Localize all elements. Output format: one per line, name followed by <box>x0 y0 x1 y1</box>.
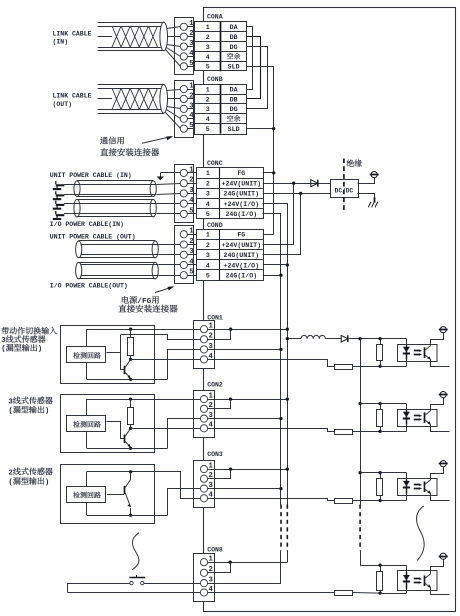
LINK CABLE IN cable core wire stub <box>98 36 112 38</box>
wire COND 24G(I/O) to bus <box>263 275 281 277</box>
svg-text:CON3: CON3 <box>207 451 223 458</box>
LINK CABLE IN cable braid shield <box>112 26 158 47</box>
connector block CON8 <box>194 554 215 602</box>
svg-text:5: 5 <box>206 211 210 218</box>
junction dot S2 resistor top <box>129 397 132 400</box>
CON3 pin 4 contact <box>200 495 207 502</box>
svg-text:2: 2 <box>189 92 193 100</box>
svg-text:4: 4 <box>206 116 210 123</box>
wire COND pin 5 to table <box>187 275 196 277</box>
svg-text:LINK CABLE: LINK CABLE <box>53 30 92 37</box>
wire CON1 pin1 to +24V(I/O) bus <box>208 329 288 331</box>
wire CON2 pin4 signal to opto <box>208 429 335 432</box>
sensor box S1 <box>61 326 155 384</box>
wire I/O power OUT conductors <box>81 264 159 266</box>
junction dot S3 collector top <box>129 470 132 473</box>
svg-text:5: 5 <box>189 207 193 215</box>
wire S2 0V to pin 3 <box>168 419 201 449</box>
LED inside optocoupler PC8 <box>403 575 410 580</box>
svg-text:4: 4 <box>206 201 210 208</box>
wire CON3 pin1 to +24V(I/O) bus <box>208 469 288 471</box>
LINK CABLE IN shielded cable jacket <box>98 22 164 24</box>
svg-text:(: ( <box>8 408 12 416</box>
wire S1 left supply rail <box>86 329 88 346</box>
CONC pin 4 contact <box>180 200 187 207</box>
earth symbol PC8 output <box>440 553 446 559</box>
wire S3 0V to pin 3 <box>168 489 201 516</box>
svg-text:UNIT POWER CABLE (OUT): UNIT POWER CABLE (OUT) <box>50 233 136 240</box>
wire S2 0V bottom rail <box>87 448 168 450</box>
connector block CON2 <box>194 391 215 438</box>
svg-text:1: 1 <box>206 170 210 177</box>
wire CONB pin 2 to table <box>187 98 194 100</box>
junction dot CON3 pin1-pin2 bridge <box>229 467 232 470</box>
wire S3 bottom rail <box>87 515 168 517</box>
wire CON8 bridge pin1 to pin2 <box>208 563 231 573</box>
wire 24G(UNIT) net CONC to COND and DC/DC <box>263 193 330 195</box>
CONA pin 4 contact <box>180 53 187 60</box>
svg-text:24G(I/O): 24G(I/O) <box>225 273 257 280</box>
wire PC3 collector to earth <box>431 467 444 480</box>
DC/DC converter U1 <box>331 180 359 198</box>
optocoupler PC8 body <box>398 571 438 591</box>
inductor L1 noise filter <box>287 338 301 340</box>
wire CON1 bridge pin1 to pin2 <box>208 330 231 340</box>
UNIT power cable OUT <box>79 240 156 242</box>
svg-text:I/O POWER CABLE(OUT): I/O POWER CABLE(OUT) <box>50 283 128 290</box>
crimp terminal 24G(I/O) <box>56 214 65 216</box>
wire PC1 emitter output <box>431 360 450 367</box>
connector block CONC <box>175 165 194 223</box>
connector block CONB <box>175 81 194 138</box>
wire CONB pin 1 to table <box>187 89 194 91</box>
wire PC8 LED cathode return <box>406 589 408 593</box>
resistor CON1 series (horizontal) <box>335 365 353 370</box>
CONA pin 5 contact <box>180 63 187 70</box>
svg-text:3: 3 <box>1 337 6 345</box>
svg-text:2: 2 <box>8 469 13 477</box>
wire PC2 feed to LED anode <box>380 403 406 405</box>
wire PC2 LED cathode return <box>406 425 408 432</box>
svg-text:2: 2 <box>206 34 210 41</box>
insulation boundary dashed line <box>343 159 345 213</box>
detection circuit box S1 <box>67 347 106 363</box>
svg-text:5: 5 <box>206 273 210 280</box>
CON8 pin 3 contact <box>200 580 207 587</box>
table CONB <box>195 85 247 135</box>
wires link cable IN conductors to CONA pins <box>167 27 181 29</box>
CON8 pin 1 contact <box>200 559 207 566</box>
sensor box S2 <box>61 395 155 453</box>
wire PC3 LED cathode return <box>406 494 408 501</box>
svg-text:4: 4 <box>189 258 194 266</box>
junction dot S1 collector node <box>129 358 132 361</box>
resistor PC2 input divider (vertical) <box>377 410 383 427</box>
junction dot S2 collector node <box>129 427 132 430</box>
wire PC8 emitter output <box>431 588 450 595</box>
svg-text:UNIT POWER CABLE (IN): UNIT POWER CABLE (IN) <box>50 172 132 179</box>
junction dot CON1 pin1-pin2 bridge <box>229 328 232 331</box>
phototransistor inside optocoupler PC1 <box>424 347 426 358</box>
wire CONC FG to functional earth <box>160 172 180 174</box>
wire COND pin 3 to table <box>187 254 196 256</box>
wire CONA pin 5 to table <box>187 66 194 68</box>
wire DC/DC output to earth <box>358 178 375 184</box>
diode D1 reverse protection <box>341 335 348 342</box>
COND pin 2 contact <box>180 241 187 248</box>
wire PC2 emitter output <box>431 425 450 432</box>
resistor S2 pull-up <box>130 399 132 408</box>
svg-text:+24V(UNIT): +24V(UNIT) <box>222 242 262 249</box>
CON1 pin 1 contact <box>200 326 207 333</box>
wire CON1 pin3 to 24G(I/O) bus <box>208 349 281 351</box>
LINK CABLE IN cable end ellipse <box>160 22 168 51</box>
wire I/O power IN conductors <box>64 203 156 205</box>
junction dot +24V(UNIT) <box>292 182 295 185</box>
junction dot CON2 pin1 bus <box>286 397 289 400</box>
arrow to CONB block <box>142 137 171 144</box>
junction dot PC1 resistor bottom <box>378 365 381 368</box>
LINK CABLE OUT cable core wire stub <box>98 98 112 100</box>
wire CONC pin 2 to table <box>187 183 196 185</box>
CONC pin 2 contact <box>180 180 187 187</box>
svg-text:+24V(I/O): +24V(I/O) <box>223 201 259 208</box>
junction dot PC1 resistor top <box>378 337 381 340</box>
svg-text:2: 2 <box>206 242 210 249</box>
junction dot CON3 pin1 bus <box>286 467 289 470</box>
wire CONA pin 1 to table <box>187 26 194 28</box>
wire CONC pin 5 to table <box>187 213 196 215</box>
table CONA <box>195 22 247 71</box>
svg-text:COND: COND <box>207 222 223 229</box>
optocoupler PC3 body <box>398 479 438 496</box>
junction dot CON2 pin1-pin2 bridge <box>229 397 232 400</box>
svg-text:(: ( <box>8 479 12 487</box>
label power/FG direct-mount connector <box>122 296 129 303</box>
connector block CON1 <box>194 321 215 369</box>
opto feed rail (vertical) <box>360 339 362 505</box>
svg-text:+24V(I/O): +24V(I/O) <box>223 262 259 269</box>
svg-text:1: 1 <box>189 166 194 174</box>
COND pin 5 contact <box>180 272 187 279</box>
wire CON2 bridge pin1 to pin2 <box>208 400 231 409</box>
junction dot +24V(I/O) COND <box>286 263 289 266</box>
wire CON3 pin3 to 24G(I/O) bus <box>208 488 281 490</box>
crimp terminal +24V(UNIT) <box>56 184 65 186</box>
junction dot PC8 resistor top <box>378 564 381 567</box>
resistor S1 pull-up <box>130 329 132 338</box>
wire PC2 collector to earth <box>431 398 444 411</box>
wire CONB pin 5 to table <box>187 128 194 130</box>
wire SLD / FG common net <box>247 67 274 235</box>
wire UNIT power IN conductors <box>64 184 156 186</box>
wire S2 left supply rail <box>86 399 88 415</box>
enclosure border of I/O unit <box>204 8 456 612</box>
svg-text:2: 2 <box>206 96 210 103</box>
earth symbol DC/DC <box>371 172 377 178</box>
CONA pin 3 contact <box>180 43 187 50</box>
wire S3 left supply rail <box>86 472 88 486</box>
svg-text:): ) <box>45 479 49 487</box>
wire CONC pin 4 to table <box>187 203 196 205</box>
wire CON8 pin4 to opto8 <box>208 592 335 594</box>
wire CONB pin 3 to table <box>187 108 194 110</box>
wire +24V(UNIT) net CONC to COND and DC/DC <box>263 183 330 185</box>
svg-text:I/O POWER CABLE(IN): I/O POWER CABLE(IN) <box>50 221 124 228</box>
svg-text:CONA: CONA <box>207 13 223 20</box>
wire S3 top rail to pin 4 jog <box>87 472 201 499</box>
svg-text:3: 3 <box>189 248 194 256</box>
wire PC8 feed to LED anode <box>380 565 406 567</box>
wire 24G(I/O) bus <box>263 214 281 584</box>
optocoupler PC2 body <box>398 410 438 427</box>
junction dot PC2 resistor top <box>378 402 381 405</box>
phototransistor inside optocoupler PC3 <box>424 481 426 492</box>
svg-text:): ) <box>38 346 42 354</box>
svg-text:4: 4 <box>206 262 210 269</box>
svg-text:(: ( <box>1 346 5 354</box>
junction dot opto2 feed <box>358 402 361 405</box>
transistor S1 NPN output <box>124 366 126 375</box>
CONA row 4 signal label 空余 <box>227 53 233 59</box>
wire PC3 emitter output <box>431 494 450 501</box>
optocoupler PC1 body <box>398 345 438 362</box>
CON3 pin 1 contact <box>200 466 207 473</box>
svg-text:DB: DB <box>230 34 238 41</box>
svg-text:24G(UNIT): 24G(UNIT) <box>223 252 259 259</box>
wire COND pin 2 to table <box>187 244 196 246</box>
wire CON3 bridge pin1 to pin2 <box>208 470 231 479</box>
wire CONC pin 1 to table <box>187 172 196 174</box>
svg-text:SLD: SLD <box>228 64 240 71</box>
wire S2 base from detection circuit <box>107 422 125 439</box>
dashed continuation of I/O buses <box>280 505 282 551</box>
diode on +24V(UNIT) feed <box>311 180 318 187</box>
wire CON2 pin3 to 24G(I/O) bus <box>208 418 281 420</box>
junction dot S2 emitter <box>129 447 132 450</box>
svg-text:3: 3 <box>8 398 13 406</box>
wire COND pin 4 to table <box>187 264 196 266</box>
resistor CON3 series (horizontal) <box>335 499 353 504</box>
detection circuit box S3 <box>67 487 106 503</box>
wire CON1 pin4 signal to opto <box>208 360 335 367</box>
svg-text:5: 5 <box>206 64 210 71</box>
svg-text:CON8: CON8 <box>207 546 223 553</box>
wire CONC FG to shield net <box>263 172 274 174</box>
CON2 pin 1 contact <box>200 396 207 403</box>
svg-text:CONB: CONB <box>207 76 223 83</box>
CONC pin 1 contact <box>180 169 187 176</box>
wires link cable OUT conductors to CONB pins <box>167 90 181 91</box>
svg-text:5: 5 <box>206 126 210 133</box>
crimp terminal +24V(I/O) <box>56 204 65 206</box>
wire CON8 pin3 to 24G bus end <box>208 583 281 585</box>
junction dot PC3 resistor top <box>378 471 381 474</box>
svg-text:FG: FG <box>237 232 245 239</box>
CONB pin 3 contact <box>180 105 187 112</box>
junction dot CON2 pin3 bus <box>279 417 282 420</box>
LINK CABLE OUT shielded cable jacket <box>98 84 164 86</box>
transistor S2 NPN output <box>124 435 126 444</box>
label insulation <box>347 160 354 167</box>
wire S1 switching input to pin 2 <box>121 335 201 340</box>
phototransistor inside optocoupler PC2 <box>424 412 426 423</box>
svg-text:3: 3 <box>189 102 194 110</box>
svg-text:+24V(UNIT): +24V(UNIT) <box>222 181 262 188</box>
junction dot CON8 bridge <box>229 561 232 564</box>
svg-text:2: 2 <box>206 181 210 188</box>
CON1 pin 4 contact <box>200 356 207 363</box>
wire CONA pin 3 to table <box>187 46 194 48</box>
wire S1 0V bottom rail <box>87 379 168 381</box>
connector block CON3 <box>194 461 215 508</box>
svg-text:CON1: CON1 <box>207 315 223 322</box>
CON3 pin 2 contact <box>200 475 207 482</box>
crimp terminal 24G(UNIT) <box>56 194 65 196</box>
wire CONC pin 3 to table <box>187 193 196 195</box>
junction dot opto feed rail top <box>358 337 361 340</box>
svg-text:24G(UNIT): 24G(UNIT) <box>223 191 259 198</box>
wire S1 0V to pin 3 <box>168 350 201 380</box>
junction dot PC2 resistor bottom <box>378 430 381 433</box>
junction dot S1 emitter <box>129 378 132 381</box>
CON2 pin 3 contact <box>200 415 207 422</box>
wire return loop to CON8 pin4 <box>68 592 201 594</box>
bus break white gaps (dashed continuation) <box>279 505 291 551</box>
svg-text:1: 1 <box>206 86 210 93</box>
break squiggle more channels (left) <box>132 533 139 570</box>
svg-text:4: 4 <box>206 54 210 61</box>
wire PC1 LED cathode return <box>406 360 408 367</box>
connector block CONA <box>175 18 194 75</box>
CON1 pin 2 contact <box>200 336 207 343</box>
junction dot S1 resistor top <box>129 328 132 331</box>
junction dot FG/SLD <box>272 171 275 174</box>
svg-text:CON2: CON2 <box>207 382 223 389</box>
wire COND pin 1 to table <box>187 234 196 236</box>
light coupling arrows PC3 <box>414 484 420 486</box>
light coupling arrows PC2 <box>414 415 420 417</box>
junction dot PC8 resistor bottom <box>378 591 381 594</box>
wire COND FG to shield net <box>263 234 274 236</box>
svg-text:1: 1 <box>206 232 210 239</box>
LED inside optocoupler PC2 <box>403 412 410 417</box>
wire switch loop left side <box>67 583 69 592</box>
detection circuit box S2 <box>67 416 106 432</box>
junction dot 24G(I/O) COND <box>279 274 282 277</box>
wire CON2 pin1 to +24V(I/O) bus <box>208 399 288 401</box>
CON2 pin 2 contact <box>200 405 207 412</box>
CONB pin 5 contact <box>180 125 187 132</box>
wire DC/DC output to chassis ground <box>358 194 375 198</box>
wire external switch loop to CON8 pin3 <box>68 583 130 585</box>
svg-text:3: 3 <box>206 191 210 198</box>
earth symbol PC2 output <box>440 392 446 398</box>
junction dot inductor feed from +24V bus <box>286 337 289 340</box>
svg-text:FG: FG <box>237 170 245 177</box>
wire S3 base from detection circuit <box>107 494 124 496</box>
COND pin 3 contact <box>180 251 187 258</box>
LED inside optocoupler PC3 <box>403 481 410 486</box>
wire CON8 pin1 to +24V bus end <box>208 562 288 564</box>
sensor box S3 <box>61 465 155 524</box>
junction dot CON1 pin3 bus <box>279 348 282 351</box>
table COND <box>197 230 264 281</box>
wire CONA DB to CONB DB <box>247 37 261 99</box>
junction dot CON1 pin1 bus <box>286 328 289 331</box>
CONB pin 1 contact <box>180 85 187 92</box>
CON1 pin 3 contact <box>200 346 207 353</box>
arrow to COND block <box>155 287 172 293</box>
wire PC1 collector to earth <box>431 333 444 346</box>
break squiggle more channels (right) <box>416 506 424 561</box>
wire S2 +V top rail <box>87 399 201 401</box>
wire PC8 collector to earth <box>431 560 444 574</box>
resistor CON8 series (horizontal) <box>335 591 353 596</box>
label communication direct-mount connector <box>100 137 108 144</box>
svg-text:SLD: SLD <box>228 126 240 133</box>
switch contact circles <box>130 581 133 584</box>
light coupling arrows PC8 <box>414 578 420 580</box>
CON8 pin 4 contact <box>200 589 207 596</box>
wire CONA DA to CONB DA <box>247 27 253 90</box>
junction dot 24G(UNIT) <box>299 192 302 195</box>
wire CONA pin 2 to table <box>187 36 194 38</box>
svg-text:CONC: CONC <box>207 160 223 167</box>
LED inside optocoupler PC1 <box>403 347 410 352</box>
CONC pin 5 contact <box>180 210 187 217</box>
junction dot CON3 pin3 bus <box>279 487 282 490</box>
wire CONB pin 4 to table <box>187 118 194 120</box>
light coupling arrows PC1 <box>414 350 420 352</box>
I/O power cable OUT <box>79 262 156 264</box>
svg-text:3: 3 <box>206 44 210 51</box>
LINK CABLE OUT cable braid shield <box>112 88 158 109</box>
junction dot SLD at CONB <box>272 127 275 130</box>
connector block COND <box>175 226 194 284</box>
junction dot opto3 feed <box>358 471 361 474</box>
transistor S3 NPN output <box>130 472 132 480</box>
resistor CON2 series (horizontal) <box>335 430 353 435</box>
CONA pin 2 contact <box>180 33 187 40</box>
UNIT power cable IN <box>77 180 153 182</box>
phototransistor inside optocoupler PC8 <box>424 575 426 586</box>
svg-text:(OUT): (OUT) <box>53 101 73 108</box>
wire CONA DG to CONB DG <box>247 47 268 109</box>
COND pin 4 contact <box>180 261 187 268</box>
CONA pin 1 contact <box>180 23 187 30</box>
switch actuator bar <box>129 577 145 579</box>
wire CONA pin 4 to table <box>187 56 194 58</box>
I/O power cable IN <box>77 199 153 201</box>
wire PC3 feed to LED anode <box>380 472 406 474</box>
svg-text:3: 3 <box>206 106 210 113</box>
functional earth arrow symbol <box>160 173 162 177</box>
CONB pin 4 contact <box>180 115 187 122</box>
svg-text:3: 3 <box>206 252 210 259</box>
CONB pin 2 contact <box>180 95 187 102</box>
svg-text:(IN): (IN) <box>53 39 69 46</box>
resistor PC1 input divider (vertical) <box>377 345 383 361</box>
table CONC <box>197 168 264 219</box>
wire S1 +V top rail <box>87 329 201 331</box>
svg-text:24G(I/O): 24G(I/O) <box>225 211 257 218</box>
opto8 feed corner <box>360 565 380 567</box>
CON8 pin 2 contact <box>200 569 207 576</box>
wire +24V(I/O) bus <box>263 204 288 563</box>
svg-text:DG: DG <box>230 106 238 113</box>
wire UNIT power OUT conductors <box>81 244 159 246</box>
